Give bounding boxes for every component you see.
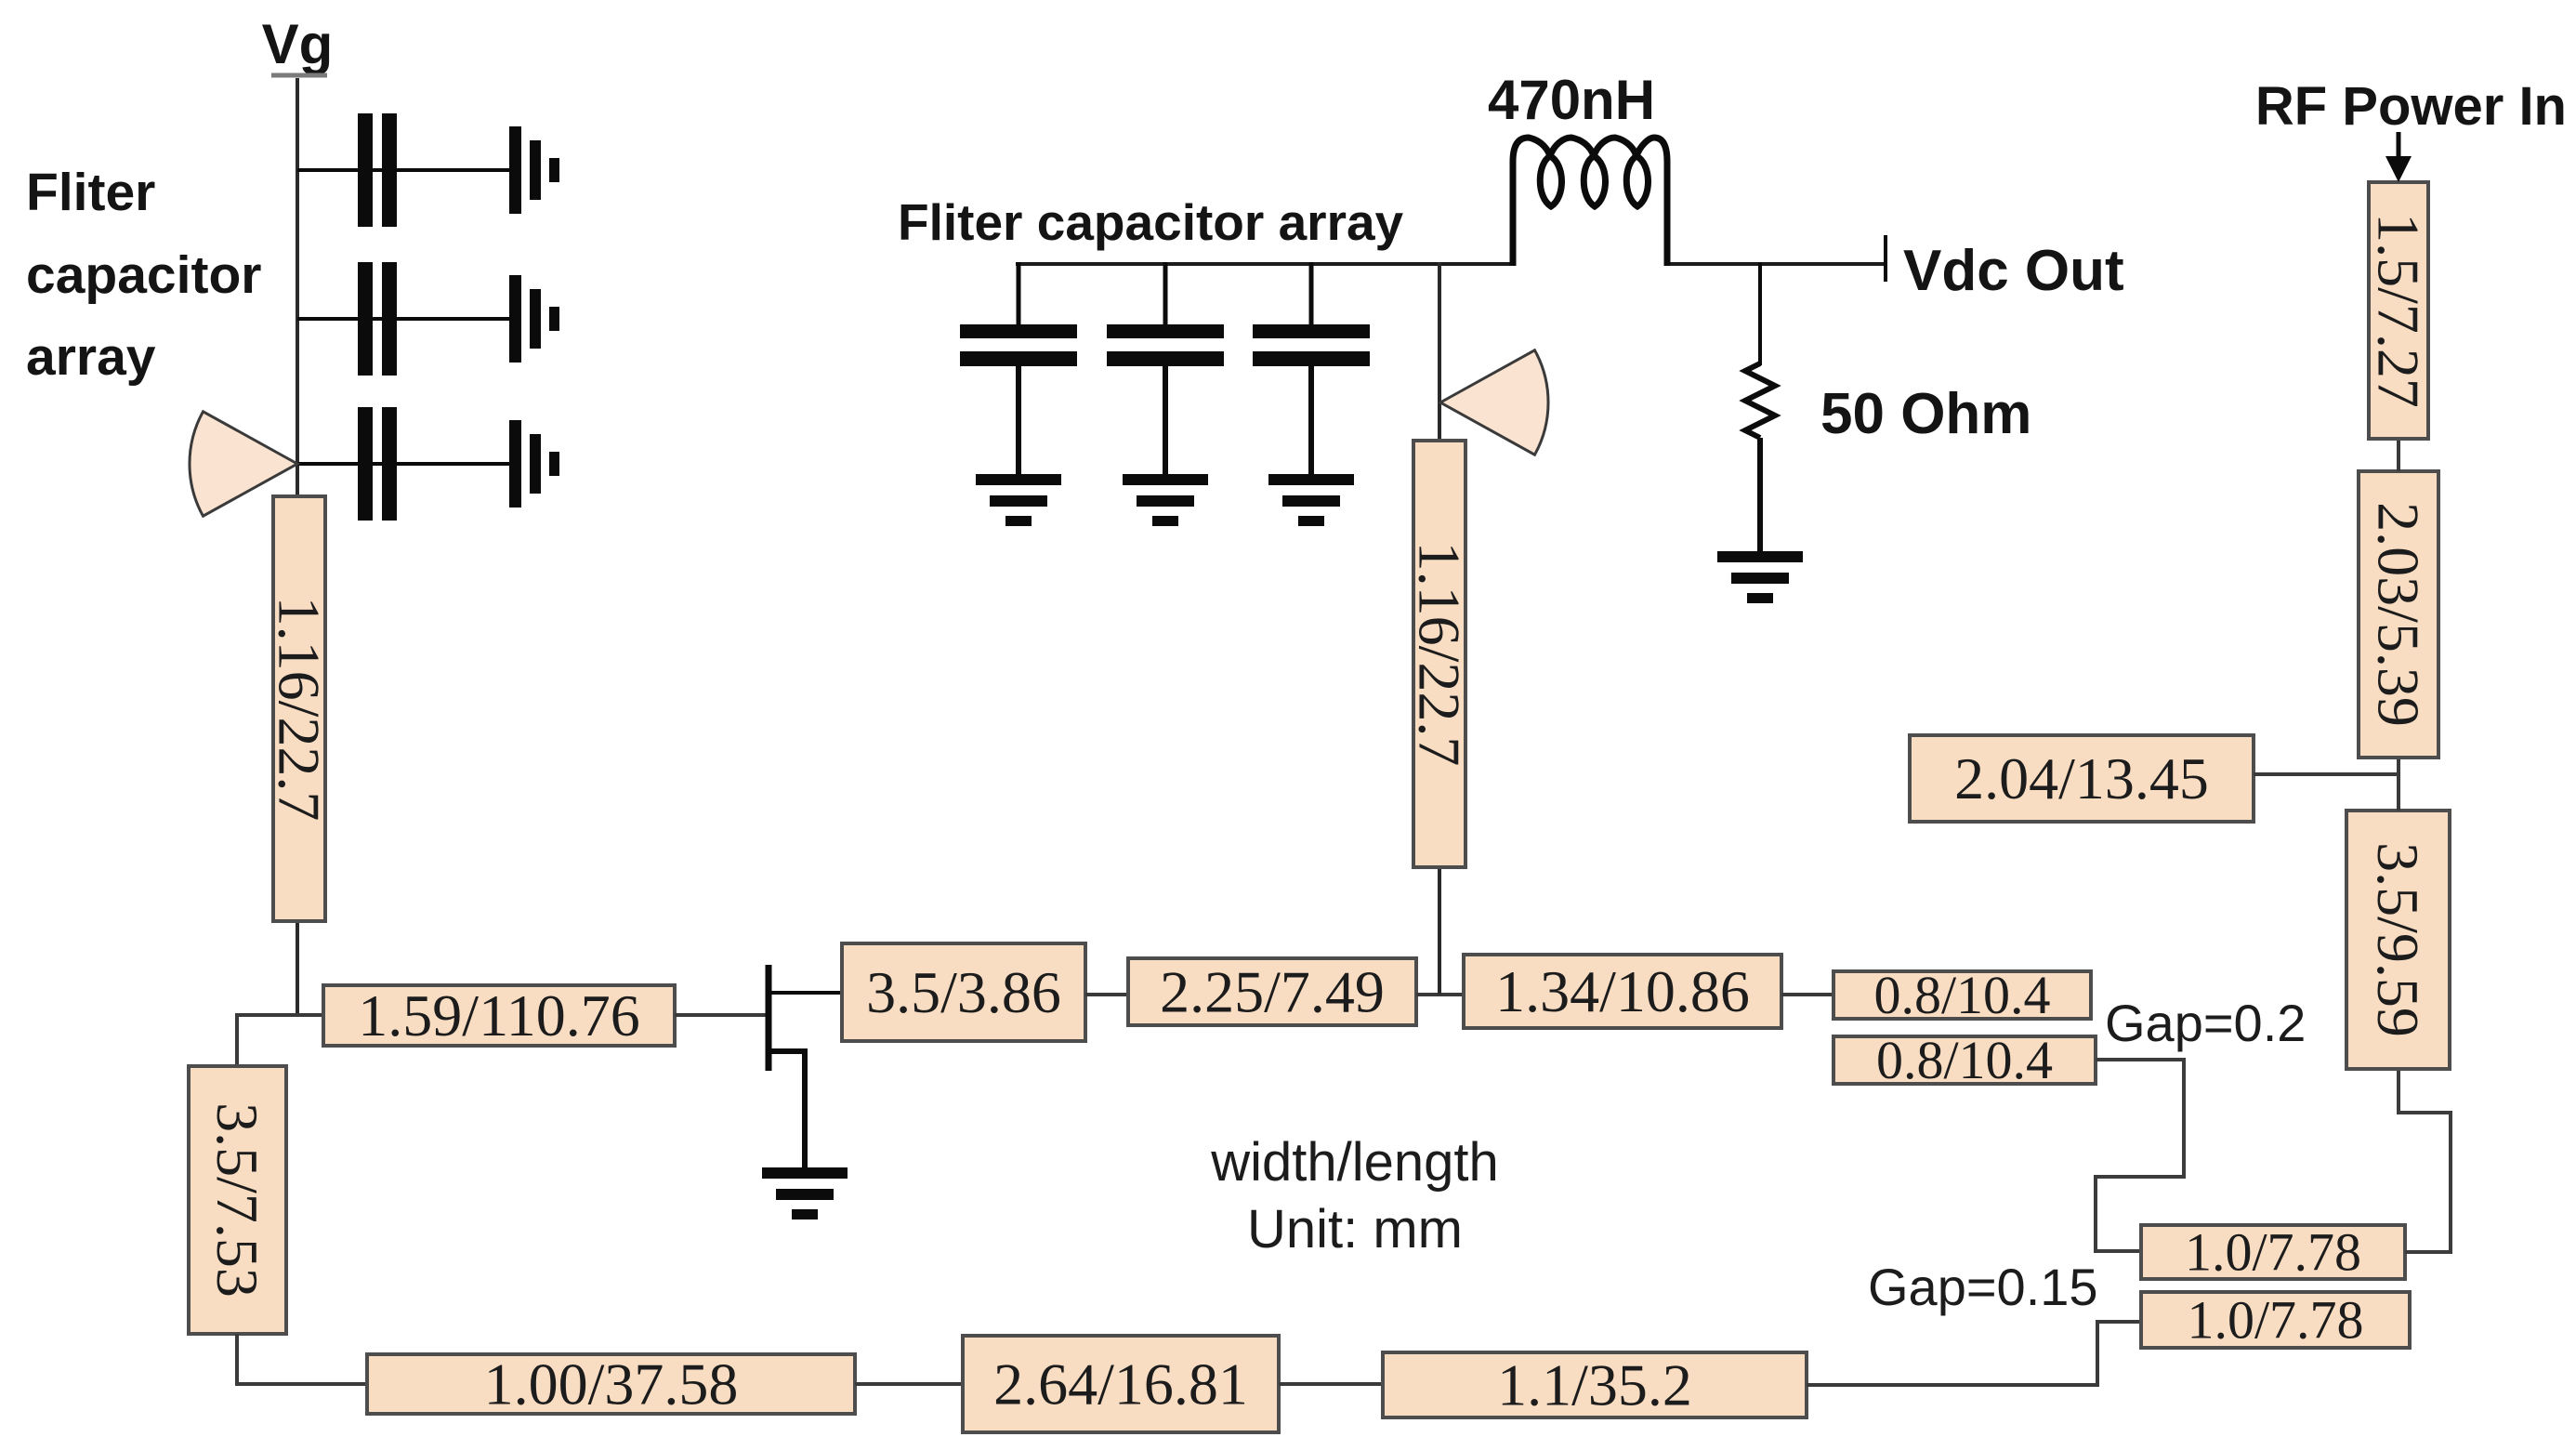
wire: resistor to ground [1757, 438, 1763, 553]
svg-text:1.00/37.58: 1.00/37.58 [484, 1351, 739, 1417]
svg-text:1.16/22.7: 1.16/22.7 [1407, 542, 1473, 767]
svg-text:2.64/16.81: 2.64/16.81 [993, 1351, 1248, 1417]
microstrip line TL1: 1.16/22.7 (vertical) [267, 496, 333, 921]
svg-text:1.5/7.27: 1.5/7.27 [2366, 213, 2432, 408]
microstrip line TL16: 1.5/7.27 (vertical) [2366, 182, 2432, 439]
svg-text:50 Ohm: 50 Ohm [1820, 382, 2031, 446]
wire: staircase from coupled 0.8/10.4 down to 1.0/7.78 [2096, 1060, 2184, 1251]
svg-text:1.0/7.78: 1.0/7.78 [2185, 1222, 2361, 1283]
wire: Q1 source lead [769, 1051, 805, 1169]
Vg underline [271, 73, 327, 78]
svg-text:3.5/7.53: 3.5/7.53 [204, 1102, 270, 1298]
svg-text:1.1/35.2: 1.1/35.2 [1497, 1352, 1692, 1418]
ground for C3 [509, 420, 559, 508]
wire: filter cap row 3 lead [297, 462, 509, 466]
svg-text:2.04/13.45: 2.04/13.45 [1954, 745, 2209, 811]
microstrip line TL10: 0.8/10.4 [1833, 965, 2091, 1025]
microstrip line TL3: 1.00/37.58 [367, 1351, 855, 1417]
radial stub (gate bias, opens left) [190, 412, 297, 516]
resistor R1 50 Ohm (zigzag) [1745, 363, 1775, 438]
svg-text:Fliter capacitor array: Fliter capacitor array [898, 193, 1404, 251]
microstrip line TL11: 0.8/10.4 [1833, 1030, 2096, 1090]
svg-text:Vdc Out: Vdc Out [1903, 239, 2124, 303]
ground for C1 [509, 126, 559, 214]
microstrip line TL17: 2.04/13.45 [1910, 735, 2254, 822]
wire: filter cap row 1 lead [297, 168, 509, 172]
wire [855, 1382, 963, 1386]
microstrip line TL18: 1.16/22.7 (vertical) [1407, 441, 1473, 867]
ground for C6 [1268, 474, 1354, 526]
RF input arrow [2397, 132, 2401, 160]
radial stub (drain side, opens right) [1440, 350, 1548, 455]
microstrip line TL7: 3.5/3.86 [842, 943, 1085, 1041]
wire: Vdc bus [1016, 262, 1516, 266]
transistor Q1 (FET bar) [766, 965, 772, 1071]
svg-text:Gap=0.2: Gap=0.2 [2105, 994, 2306, 1052]
microstrip line TL5: 1.1/35.2 [1383, 1352, 1807, 1418]
ground for C2 [509, 275, 559, 363]
wire: Vg bus vertical [296, 78, 299, 1015]
wire: filter cap row 2 lead [297, 317, 509, 321]
microstrip line TL8: 2.25/7.49 [1128, 958, 1416, 1025]
wire: shunt cap 2 to ground [1163, 364, 1168, 476]
svg-text:0.8/10.4: 0.8/10.4 [1873, 965, 2050, 1025]
microstrip line TL4: 2.64/16.81 [963, 1336, 1279, 1432]
microstrip line TL13: 1.0/7.78 [2141, 1290, 2410, 1351]
wire: shunt cap 2 drop [1163, 262, 1168, 326]
ground (50 Ohm load) [1717, 551, 1803, 603]
svg-text:1.0/7.78: 1.0/7.78 [2187, 1290, 2363, 1351]
microstrip line TL2: 3.5/7.53 (vertical) [189, 1066, 286, 1334]
wire: resistor drop [1758, 262, 1762, 365]
wire: shunt cap 1 drop [1017, 262, 1021, 326]
microstrip line TL15: 2.03/5.39 (vertical) [2359, 471, 2438, 758]
svg-text:3.5/9.59: 3.5/9.59 [2365, 842, 2431, 1037]
wire [2397, 439, 2400, 471]
wire: bottom-right riser to coupled line [1807, 1322, 2141, 1385]
wire: shunt cap 3 to ground [1308, 364, 1314, 476]
wire: right riser chain [2399, 1069, 2451, 1252]
capacitor C1 (gate filter array) [358, 113, 397, 227]
microstrip line TL6: 1.59/110.76 [323, 982, 675, 1048]
ground for C5 [1123, 474, 1208, 526]
wire [2397, 758, 2400, 811]
capacitor C2 (gate filter array) [358, 262, 397, 376]
svg-text:1.34/10.86: 1.34/10.86 [1495, 958, 1750, 1024]
svg-text:1.59/110.76: 1.59/110.76 [358, 982, 639, 1048]
ground (Q1 source) [762, 1167, 848, 1219]
wire: Q1 drain lead [769, 991, 842, 995]
svg-text:1.16/22.7: 1.16/22.7 [267, 597, 333, 822]
wire: left column junction [237, 1013, 323, 1017]
wire [1781, 993, 1833, 996]
capacitor C6 (output filter array) [1253, 324, 1370, 366]
wire: shunt cap 3 drop [1309, 262, 1314, 326]
microstrip line TL14: 3.5/9.59 (vertical) [2346, 811, 2450, 1069]
wire [1279, 1382, 1383, 1386]
capacitor C3 (gate filter array) [358, 407, 397, 521]
svg-text:0.8/10.4: 0.8/10.4 [1876, 1030, 2053, 1090]
microstrip line TL9: 1.34/10.86 [1464, 955, 1781, 1028]
wire: gate feed [675, 1013, 766, 1017]
svg-text:2.25/7.49: 2.25/7.49 [1160, 959, 1385, 1025]
wire: 2.04/13.45 to riser [2254, 772, 2399, 776]
wire [1416, 993, 1464, 996]
svg-text:Gap=0.15: Gap=0.15 [1868, 1258, 2098, 1316]
wire [1085, 993, 1128, 996]
inductor L1 470nH [1513, 138, 1667, 266]
svg-text:470nH: 470nH [1488, 69, 1655, 131]
svg-text:RF Power In: RF Power In [2255, 76, 2567, 137]
capacitor C4 (output filter array) [960, 324, 1077, 366]
Vdc Out terminal tick [1884, 235, 1887, 282]
ground for C4 [976, 474, 1061, 526]
wire: shunt cap 1 to ground [1016, 364, 1021, 476]
svg-text:3.5/3.86: 3.5/3.86 [866, 959, 1061, 1025]
svg-text:Vg: Vg [262, 13, 334, 75]
capacitor C5 (output filter array) [1107, 324, 1224, 366]
svg-text:2.03/5.39: 2.03/5.39 [2366, 502, 2432, 727]
wire: middle riser from Vdc bus down to main row [1438, 262, 1441, 995]
microstrip line TL12: 1.0/7.78 [2141, 1222, 2405, 1283]
wire: down-left corner [235, 1334, 239, 1385]
